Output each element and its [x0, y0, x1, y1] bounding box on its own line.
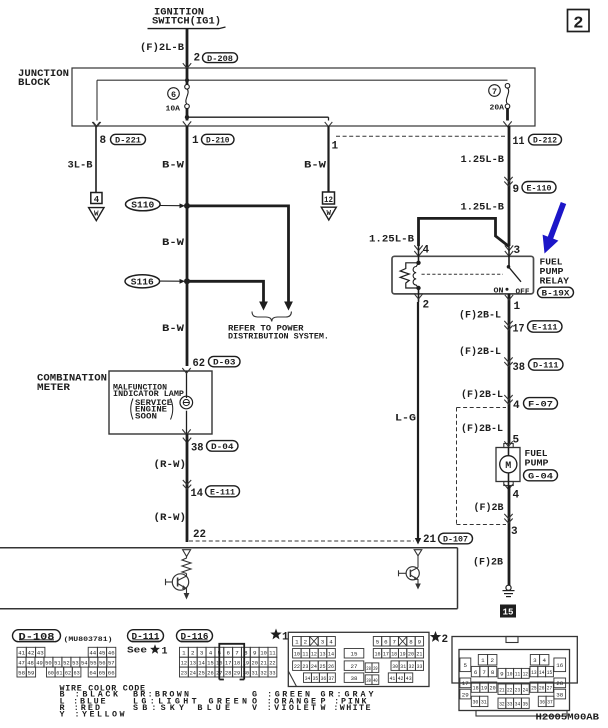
svg-text:17: 17 — [462, 680, 469, 687]
svg-text:7: 7 — [392, 638, 396, 645]
chassis ground (fuel pump) — [503, 585, 515, 596]
svg-text:52: 52 — [63, 659, 70, 666]
wire B-W main vertical — [162, 126, 187, 366]
svg-text:60: 60 — [48, 669, 55, 676]
svg-text:6: 6 — [171, 90, 176, 100]
svg-text:57: 57 — [108, 659, 115, 666]
svg-text:D-111: D-111 — [533, 361, 559, 371]
wire (F)2B-L segment 3 — [461, 389, 503, 401]
svg-text:32: 32 — [260, 669, 267, 676]
svg-text:4: 4 — [94, 195, 100, 205]
transistor Q (right) — [399, 556, 420, 581]
svg-text:13: 13 — [319, 650, 325, 657]
connector D-116 label — [177, 630, 213, 642]
wire 3L-B — [68, 126, 97, 193]
wire L-G — [395, 302, 421, 545]
svg-text:9: 9 — [253, 649, 257, 656]
pin 9 connector E-110 — [504, 177, 556, 196]
svg-text:4: 4 — [513, 400, 520, 412]
svg-text:(F)2B-L: (F)2B-L — [461, 389, 503, 401]
pin 4 connector F-07 — [504, 395, 557, 412]
svg-text:E-110: E-110 — [527, 183, 552, 193]
svg-text:45: 45 — [99, 649, 106, 656]
svg-text:44: 44 — [89, 649, 96, 656]
svg-text:13: 13 — [531, 669, 537, 676]
star 2 marker — [430, 631, 448, 646]
pin 1 connector D-210 — [192, 134, 234, 147]
fuel pump dashed enclosure — [457, 408, 507, 525]
svg-text:4: 4 — [542, 657, 546, 664]
blue annotation arrow — [543, 202, 567, 254]
svg-text:1.25L-B: 1.25L-B — [369, 233, 415, 245]
pin 22 — [193, 529, 206, 541]
svg-text:31: 31 — [481, 699, 487, 706]
svg-text:(F)2B: (F)2B — [474, 502, 505, 514]
svg-text:38: 38 — [351, 675, 358, 682]
svg-text:ON: ON — [494, 287, 504, 295]
svg-text:8: 8 — [409, 638, 413, 645]
ground point 15 — [501, 605, 516, 617]
svg-text:9: 9 — [500, 671, 504, 678]
relay pin 1 — [505, 294, 521, 313]
pin 1 of D-212 with dashed tie — [332, 136, 506, 152]
svg-text:1: 1 — [514, 301, 521, 313]
wire (F)2B lower — [473, 556, 504, 568]
svg-text:18: 18 — [473, 684, 479, 691]
junction block internal bus — [93, 68, 507, 127]
svg-text:38: 38 — [556, 691, 563, 698]
svg-text:SOON: SOON — [135, 413, 157, 421]
svg-text:30: 30 — [392, 663, 398, 670]
splice S110 — [126, 198, 191, 211]
svg-text:14: 14 — [328, 650, 334, 657]
svg-text:26: 26 — [539, 684, 545, 691]
svg-text:B-19X: B-19X — [542, 289, 570, 298]
svg-text:14: 14 — [539, 669, 545, 676]
svg-text:METER: METER — [37, 382, 71, 394]
svg-text:D-116: D-116 — [181, 632, 209, 642]
svg-text:43: 43 — [406, 675, 412, 682]
wire (R-W) upper — [154, 434, 188, 542]
relay coil — [400, 261, 420, 291]
svg-text:See: See — [127, 646, 147, 656]
svg-text:35: 35 — [523, 700, 529, 707]
svg-text:58: 58 — [18, 669, 25, 676]
svg-text:33: 33 — [269, 669, 276, 676]
svg-text:55: 55 — [90, 659, 97, 666]
svg-text:16: 16 — [375, 650, 381, 657]
branch wire from S110 — [187, 206, 293, 311]
pin 8 connector D-221 — [92, 122, 145, 147]
svg-text:4: 4 — [423, 245, 430, 257]
svg-text:20: 20 — [490, 684, 496, 691]
connector D-108 label — [13, 630, 113, 644]
input triangle (left) — [183, 550, 191, 557]
svg-text:INDICATOR LAMP: INDICATOR LAMP — [113, 391, 184, 399]
svg-text:28: 28 — [366, 665, 371, 672]
svg-text:B-W: B-W — [304, 159, 327, 171]
svg-text:19: 19 — [400, 650, 406, 657]
svg-text:39: 39 — [366, 677, 371, 684]
svg-text:48: 48 — [27, 659, 34, 666]
pin 17 connector E-111 — [504, 321, 562, 336]
svg-text:31: 31 — [252, 669, 259, 676]
wire (F)2B-L segment 1 — [459, 308, 509, 444]
svg-text:12: 12 — [324, 196, 333, 205]
svg-text:29: 29 — [373, 665, 378, 672]
svg-text:2: 2 — [573, 15, 583, 34]
svg-text:24: 24 — [190, 669, 197, 676]
svg-text:11: 11 — [515, 671, 521, 678]
svg-text:28: 28 — [556, 680, 563, 687]
svg-text:66: 66 — [108, 669, 115, 676]
pin 11 connector D-212 — [513, 134, 562, 148]
svg-text:37: 37 — [329, 675, 335, 682]
svg-text:15: 15 — [207, 659, 214, 666]
wire 1.25L-B vertical — [461, 126, 510, 246]
svg-text:OFF: OFF — [516, 288, 531, 296]
svg-text:27: 27 — [351, 663, 358, 670]
svg-text:7: 7 — [235, 649, 239, 656]
svg-text:42: 42 — [398, 675, 404, 682]
svg-text:W :WHITE: W :WHITE — [321, 703, 371, 713]
branch wire from S116 — [187, 281, 268, 310]
svg-text:D-212: D-212 — [533, 136, 557, 146]
svg-text:17: 17 — [383, 650, 389, 657]
pin 38 connector D-111 — [504, 357, 563, 373]
svg-text:1: 1 — [182, 649, 186, 656]
svg-text:13: 13 — [190, 659, 197, 666]
svg-text:19: 19 — [481, 684, 487, 691]
star-1 connector outline — [288, 632, 429, 686]
svg-text:61: 61 — [56, 669, 63, 676]
svg-text:1: 1 — [481, 657, 485, 664]
svg-text:3: 3 — [200, 649, 204, 656]
svg-text:12: 12 — [311, 650, 317, 657]
pin 3 of fuel pump connector — [504, 514, 518, 538]
svg-text:51: 51 — [54, 659, 61, 666]
input triangle (right) — [414, 550, 422, 556]
svg-text:S116: S116 — [131, 278, 154, 288]
svg-text:25: 25 — [319, 663, 325, 670]
svg-text:E-111: E-111 — [532, 323, 558, 333]
svg-text:Y :YELLOW: Y :YELLOW — [60, 710, 126, 720]
wire color code table — [60, 684, 375, 720]
svg-text:B-W: B-W — [162, 159, 185, 171]
svg-text:12: 12 — [523, 671, 529, 678]
svg-text:(F)2B-L: (F)2B-L — [459, 309, 501, 321]
svg-text:26: 26 — [328, 663, 334, 670]
svg-text:28: 28 — [225, 669, 232, 676]
ignition switch (IG1) — [148, 6, 226, 28]
svg-text:(F)2L-B: (F)2L-B — [140, 42, 185, 54]
svg-text:8: 8 — [491, 669, 495, 676]
pin 2 connector D-208 — [183, 53, 238, 69]
svg-text:SWITCH(IG1): SWITCH(IG1) — [152, 15, 221, 27]
fuel pump relay label — [538, 257, 574, 299]
svg-text:V :VIOLET: V :VIOLET — [252, 703, 316, 713]
svg-text:22: 22 — [294, 663, 300, 670]
combination meter label — [37, 372, 107, 394]
svg-text:7: 7 — [482, 669, 486, 676]
svg-text:D-221: D-221 — [115, 136, 141, 146]
svg-text:22: 22 — [507, 686, 513, 693]
svg-text:17: 17 — [225, 659, 232, 666]
svg-text:F-07: F-07 — [528, 399, 553, 409]
svg-text:21: 21 — [260, 659, 267, 666]
svg-text:21: 21 — [423, 534, 436, 546]
svg-text:30: 30 — [472, 699, 478, 706]
svg-text:15: 15 — [547, 669, 553, 676]
svg-text:(R-W): (R-W) — [154, 512, 187, 524]
svg-text:2: 2 — [490, 657, 494, 664]
svg-text:59: 59 — [28, 669, 35, 676]
svg-text:62: 62 — [193, 358, 206, 370]
svg-text:1: 1 — [162, 647, 168, 658]
svg-text:D-208: D-208 — [207, 54, 233, 64]
svg-text:16: 16 — [556, 662, 563, 669]
svg-text:DISTRIBUTION SYSTEM.: DISTRIBUTION SYSTEM. — [228, 332, 329, 341]
svg-text:10A: 10A — [166, 105, 181, 113]
pin 38 connector D-04 — [183, 438, 238, 455]
svg-text:36: 36 — [540, 699, 546, 706]
svg-text:D-04: D-04 — [211, 442, 234, 452]
svg-text:22: 22 — [193, 529, 206, 541]
svg-text:1: 1 — [332, 141, 339, 153]
svg-text:3L-B: 3L-B — [68, 159, 94, 171]
svg-text:40: 40 — [373, 677, 378, 684]
svg-text:2: 2 — [191, 649, 195, 656]
pin 21 connector D-107 — [423, 533, 473, 546]
svg-text:38: 38 — [191, 442, 204, 454]
svg-text:2: 2 — [442, 634, 449, 646]
fuel pump motor — [496, 441, 520, 489]
svg-text:41: 41 — [390, 675, 396, 682]
star-2 connector pin grid — [460, 655, 566, 709]
svg-text:26: 26 — [207, 669, 214, 676]
ground triangle W (middle) — [321, 207, 336, 220]
junction block outline — [18, 68, 535, 126]
svg-text:9: 9 — [418, 638, 422, 645]
svg-text:27: 27 — [547, 684, 553, 691]
svg-text:D-210: D-210 — [206, 136, 230, 146]
svg-text:34: 34 — [515, 700, 521, 707]
svg-text:34: 34 — [305, 675, 311, 682]
svg-text:18: 18 — [391, 650, 397, 657]
connector D-111 label — [127, 630, 168, 658]
jumper wire pins 3-4 — [369, 218, 509, 246]
svg-text:W: W — [327, 210, 332, 218]
svg-text:18: 18 — [234, 659, 241, 666]
svg-text:41: 41 — [18, 649, 25, 656]
svg-text:23: 23 — [302, 663, 308, 670]
svg-text:37: 37 — [547, 699, 553, 706]
transistor Q (left) — [166, 574, 189, 591]
svg-text:7: 7 — [492, 87, 497, 97]
svg-text:35: 35 — [313, 675, 319, 682]
ground triangle W (left) — [89, 208, 104, 221]
svg-text:(R-W): (R-W) — [154, 459, 187, 471]
svg-text:31: 31 — [400, 663, 406, 670]
pin 62 connector D-03 — [193, 356, 241, 369]
svg-text:63: 63 — [74, 669, 81, 676]
svg-text:1.25L-B: 1.25L-B — [461, 201, 505, 213]
fuse 6 (10A) — [166, 85, 190, 114]
svg-text:G-04: G-04 — [528, 471, 553, 481]
fuse 7 (20A) — [489, 84, 512, 127]
svg-text:10: 10 — [260, 649, 267, 656]
dashed connector line 22 to 21 — [189, 540, 414, 542]
svg-text:E-111: E-111 — [210, 487, 235, 497]
wire (F)2L-B from ignition switch — [140, 29, 187, 68]
svg-text:25: 25 — [198, 669, 205, 676]
svg-text:RELAY: RELAY — [540, 276, 570, 287]
star-1 connector pin grid — [293, 637, 424, 685]
svg-text:43: 43 — [37, 649, 44, 656]
wire B-W (middle branch) — [304, 126, 329, 192]
svg-text:50: 50 — [45, 659, 52, 666]
svg-text:62: 62 — [65, 669, 72, 676]
svg-text:2: 2 — [423, 300, 430, 312]
svg-text:11: 11 — [269, 649, 276, 656]
svg-text:4: 4 — [209, 649, 213, 656]
svg-text:10: 10 — [294, 650, 300, 657]
svg-text:15: 15 — [351, 650, 358, 657]
svg-text:24: 24 — [311, 663, 317, 670]
svg-text:11: 11 — [513, 136, 525, 148]
svg-text:38: 38 — [513, 362, 526, 374]
relay contact switch — [422, 265, 531, 296]
svg-text:36: 36 — [321, 675, 327, 682]
page number box 2 — [568, 10, 590, 34]
svg-text:32: 32 — [409, 663, 415, 670]
svg-text:42: 42 — [28, 649, 35, 656]
output arrow (left) — [184, 591, 190, 600]
svg-text:3: 3 — [514, 245, 521, 257]
wire (F)2B upper — [474, 502, 505, 514]
indicator lamp symbol — [180, 368, 193, 435]
svg-text:3: 3 — [321, 638, 325, 645]
output arrow (right) — [415, 581, 421, 590]
fuel pump pin 4 — [509, 486, 520, 586]
diagram code H2005M00AB — [536, 711, 600, 722]
svg-text:33: 33 — [507, 700, 513, 707]
svg-text:24: 24 — [523, 686, 529, 693]
svg-text:3: 3 — [511, 526, 518, 538]
svg-text:23: 23 — [515, 686, 521, 693]
svg-text:20: 20 — [252, 659, 259, 666]
svg-text:14: 14 — [198, 659, 205, 666]
connector D-108 pin grid — [17, 647, 116, 677]
svg-text:1: 1 — [295, 638, 299, 645]
svg-text:S110: S110 — [131, 200, 154, 210]
svg-text:32: 32 — [499, 700, 505, 707]
svg-text:D-111: D-111 — [132, 632, 161, 642]
svg-text:12: 12 — [181, 659, 188, 666]
junction block node to pin 1 — [183, 109, 332, 127]
svg-text:54: 54 — [81, 659, 88, 666]
connector square 12 — [323, 192, 335, 205]
wire (R-W) lower — [154, 512, 187, 524]
connector D-116 pin grid — [180, 644, 277, 680]
svg-text:9: 9 — [513, 184, 520, 196]
svg-text:D-108: D-108 — [19, 632, 55, 643]
svg-text:(MU803781): (MU803781) — [64, 636, 113, 644]
svg-text:B-W: B-W — [162, 323, 185, 335]
svg-text:6: 6 — [384, 638, 388, 645]
svg-text:47: 47 — [18, 659, 25, 666]
fuel pump relay box — [392, 256, 534, 294]
svg-text:20A: 20A — [490, 105, 505, 113]
svg-text:B-W: B-W — [162, 237, 185, 249]
connector square 4 — [91, 193, 102, 205]
svg-text:3: 3 — [533, 657, 537, 664]
svg-text:(F)2B-L: (F)2B-L — [461, 423, 503, 435]
svg-text:53: 53 — [72, 659, 79, 666]
svg-text:56: 56 — [99, 659, 106, 666]
svg-text:17: 17 — [513, 323, 525, 335]
svg-text:22: 22 — [269, 659, 276, 666]
svg-text:6: 6 — [474, 669, 478, 676]
svg-text:2: 2 — [304, 638, 308, 645]
svg-text:64: 64 — [89, 669, 96, 676]
svg-text:29: 29 — [462, 691, 469, 698]
resistor (left channel) — [182, 557, 191, 574]
svg-text:33: 33 — [417, 663, 423, 670]
svg-text:25: 25 — [531, 684, 537, 691]
fuel pump label G-04 — [524, 448, 558, 482]
svg-text:29: 29 — [234, 669, 241, 676]
svg-text:1.25L-B: 1.25L-B — [461, 154, 505, 166]
svg-text:PUMP: PUMP — [525, 457, 549, 468]
combination meter box — [109, 371, 212, 434]
svg-text:W: W — [94, 211, 99, 219]
svg-text:L-G: L-G — [395, 412, 416, 424]
relay pin 3 — [505, 245, 521, 267]
star 1 marker — [270, 629, 289, 644]
svg-text:5: 5 — [376, 638, 380, 645]
svg-text:14: 14 — [191, 488, 204, 500]
malfunction indicator lamp text — [113, 384, 184, 421]
svg-text:21: 21 — [499, 686, 505, 693]
relay pin 2 — [414, 288, 429, 312]
svg-text:2: 2 — [194, 53, 201, 65]
svg-text:65: 65 — [99, 669, 106, 676]
pin 14 connector E-111 — [183, 480, 240, 500]
svg-text:4: 4 — [513, 490, 520, 502]
svg-text:H2005M00AB: H2005M00AB — [536, 711, 600, 722]
svg-text:15: 15 — [503, 606, 514, 617]
svg-text:6: 6 — [226, 649, 230, 656]
svg-text:BLOCK: BLOCK — [18, 77, 51, 89]
svg-text:1: 1 — [192, 135, 199, 147]
wire (F)2B-L segment 4 — [461, 423, 520, 447]
wire (F)2B-L segment 2 — [459, 346, 501, 358]
svg-text:D-107: D-107 — [443, 535, 468, 545]
control unit band — [0, 548, 458, 609]
svg-text:(F)2B: (F)2B — [473, 556, 504, 568]
svg-text:8: 8 — [100, 135, 107, 147]
svg-text:23: 23 — [181, 669, 188, 676]
svg-text:21: 21 — [416, 650, 422, 657]
star-2 connector outline — [452, 637, 577, 717]
splice S116 — [125, 275, 190, 288]
svg-text:D-03: D-03 — [213, 358, 236, 368]
svg-text:49: 49 — [36, 659, 43, 666]
svg-text:M: M — [505, 461, 511, 472]
svg-text:5: 5 — [464, 662, 468, 669]
svg-text:4: 4 — [329, 638, 333, 645]
